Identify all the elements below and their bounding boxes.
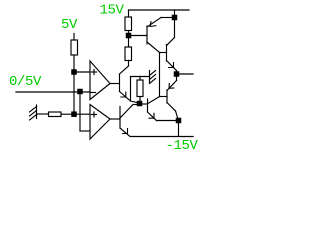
svg-text:15V: 15V [100, 3, 125, 19]
svg-text:-15V: -15V [166, 138, 199, 150]
svg-text:5V: 5V [61, 17, 78, 33]
svg-text:0/5V: 0/5V [9, 74, 42, 90]
